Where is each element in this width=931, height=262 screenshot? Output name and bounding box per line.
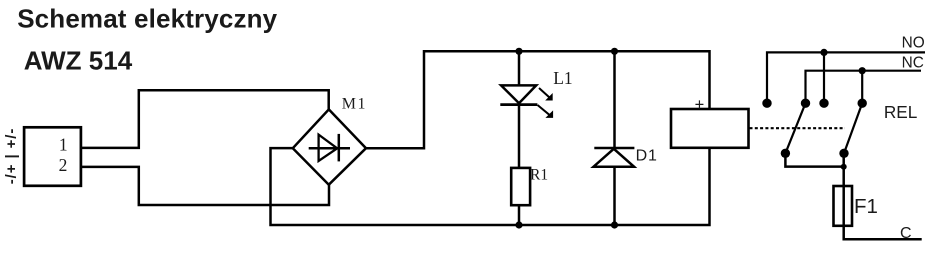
LED arrow 2 bbox=[538, 105, 554, 118]
wire D1 branch upper bbox=[613, 51, 616, 148]
LED L1 cathode bar bbox=[500, 103, 537, 106]
svg-text:L1: L1 bbox=[553, 68, 572, 88]
svg-text:1: 1 bbox=[59, 135, 68, 155]
bridge rectifier M1 diamond bbox=[293, 109, 366, 184]
svg-text:R1: R1 bbox=[530, 167, 548, 184]
svg-text:F1: F1 bbox=[854, 195, 878, 218]
svg-text:-/+ | +/-: -/+ | +/- bbox=[3, 128, 20, 184]
M1 inner diode line bbox=[309, 147, 350, 150]
wire pin1 to bridge top bbox=[80, 90, 329, 148]
M1 inner diode triangle bbox=[319, 135, 338, 161]
wire pivot A to common bus bbox=[785, 153, 843, 166]
NC line bbox=[806, 71, 922, 104]
wire pin2 to bridge bottom bbox=[80, 167, 329, 205]
wire pivot B down through fuse to C bbox=[844, 153, 922, 239]
svg-text:D1: D1 bbox=[636, 148, 658, 165]
relay terminal dot NO-a bbox=[762, 99, 771, 108]
NO branch to terminal 3 bbox=[823, 52, 825, 103]
relay terminal dot NO-b bbox=[819, 99, 828, 108]
wire LED to R1 bbox=[518, 105, 521, 168]
wire bridge positive (right vertex) to top rail and relay coil top bbox=[366, 51, 710, 148]
NO line bbox=[767, 52, 925, 103]
wire LED branch upper bbox=[518, 51, 521, 85]
junction dot top rail at D1 bbox=[611, 48, 618, 55]
svg-text:+: + bbox=[695, 96, 705, 114]
relay arm A bbox=[785, 103, 805, 153]
svg-text:AWZ 514: AWZ 514 bbox=[24, 46, 133, 76]
junction dot common bus bbox=[841, 164, 847, 170]
fuse F1 bbox=[834, 186, 853, 226]
svg-text:NC: NC bbox=[902, 54, 924, 71]
junction dot NC line bbox=[859, 67, 866, 74]
diode D1 triangle bbox=[594, 149, 635, 167]
relay coil box bbox=[671, 109, 749, 148]
resistor R1 bbox=[511, 168, 530, 205]
wire D1 to bottom rail bbox=[613, 167, 616, 225]
dashed mechanical link bbox=[750, 127, 846, 129]
NC branch to terminal 4 bbox=[861, 71, 863, 104]
svg-text:M1: M1 bbox=[342, 95, 367, 112]
relay pivot dot A bbox=[781, 149, 790, 158]
connector box J1 bbox=[24, 127, 81, 186]
relay terminal dot NC-b bbox=[858, 99, 867, 108]
diode D1 cathode bar bbox=[594, 147, 634, 150]
relay terminal dot NC-a bbox=[801, 99, 810, 108]
wire bridge negative (left vertex) to bottom rail and relay coil bottom bbox=[271, 148, 710, 225]
junction dot bottom rail at D1 bbox=[611, 221, 618, 228]
LED L1 triangle bbox=[501, 85, 536, 103]
relay pivot dot B bbox=[839, 149, 848, 158]
svg-text:REL: REL bbox=[884, 102, 917, 122]
M1 inner diode cathode bar bbox=[338, 134, 341, 162]
junction dot NO line bbox=[820, 49, 827, 56]
svg-text:C: C bbox=[900, 225, 912, 242]
relay arm B bbox=[844, 103, 862, 153]
svg-text:Schemat elektryczny: Schemat elektryczny bbox=[17, 3, 277, 33]
svg-text:NO: NO bbox=[902, 34, 925, 51]
junction dot bottom rail at R1 bbox=[515, 221, 522, 228]
junction dot top rail at LED bbox=[515, 48, 522, 55]
svg-text:2: 2 bbox=[59, 155, 68, 175]
wire R1 to bottom rail bbox=[518, 205, 521, 225]
LED arrow 1 bbox=[539, 88, 553, 101]
